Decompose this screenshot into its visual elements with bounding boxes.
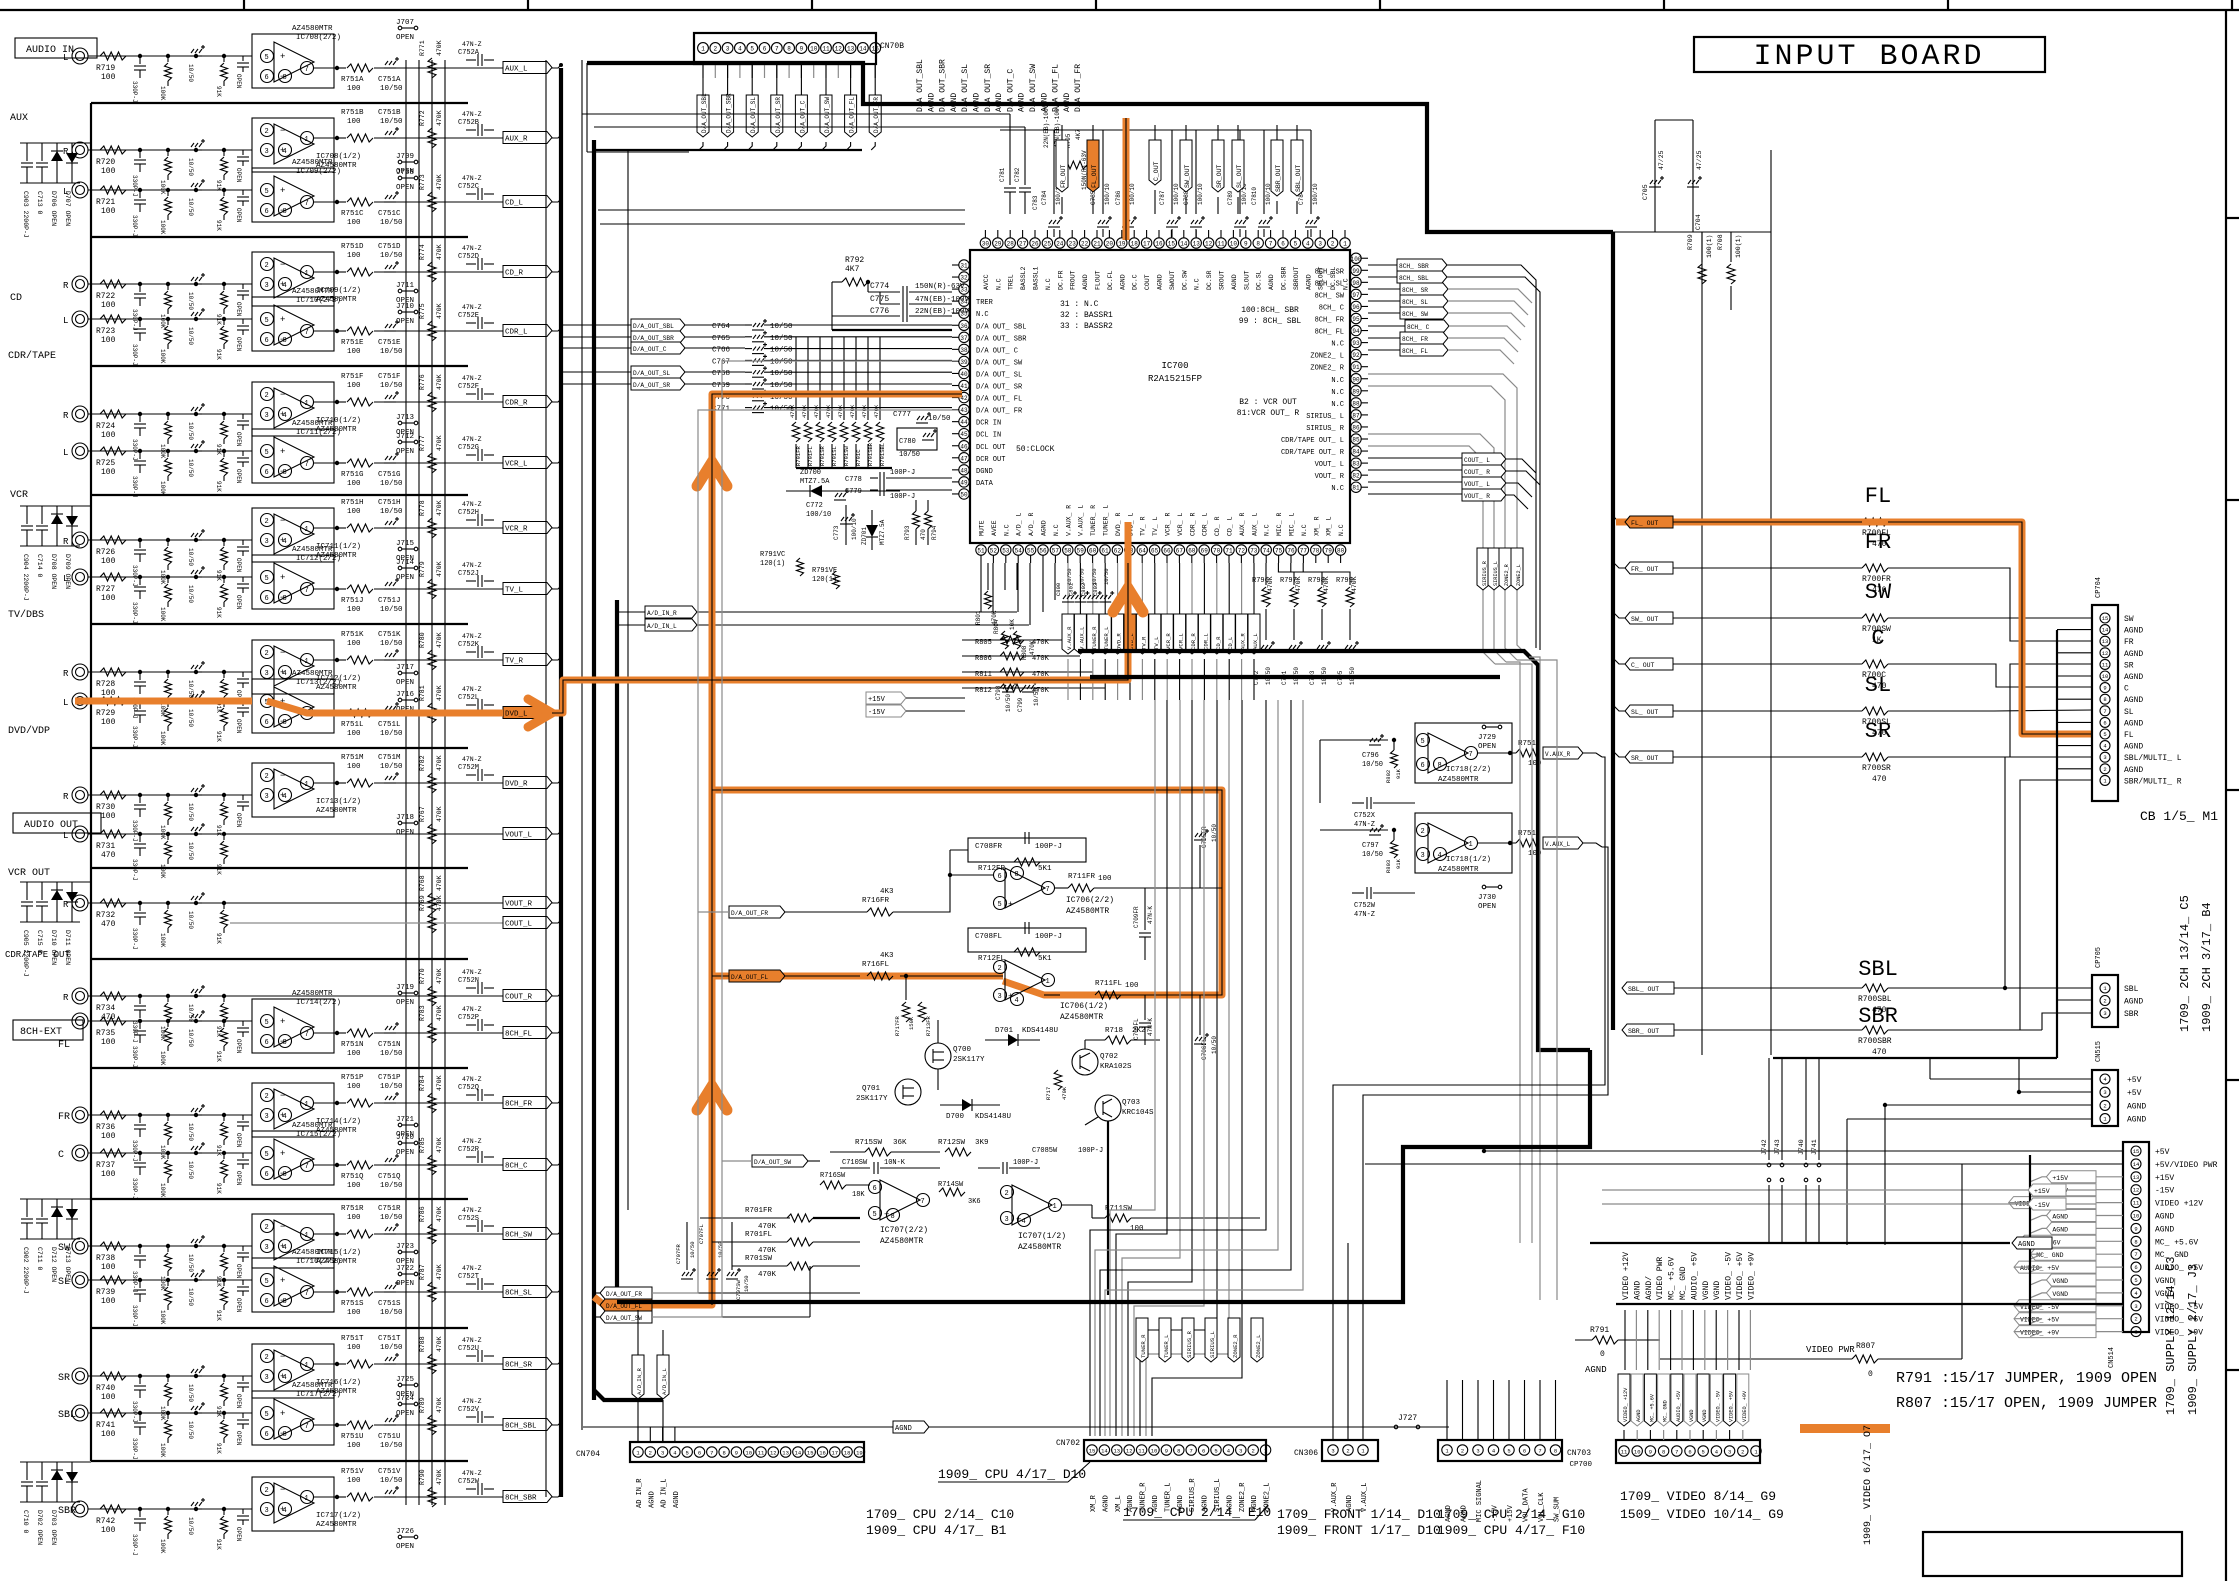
svg-text:100: 100 xyxy=(101,468,116,477)
svg-text:R714SW: R714SW xyxy=(938,1181,964,1189)
wire feedback CD__L xyxy=(334,201,346,203)
svg-text:330P-J: 330P-J xyxy=(131,1534,138,1556)
svg-text:AZ4580MTR: AZ4580MTR xyxy=(292,1249,333,1257)
svg-text:R767: R767 xyxy=(419,806,426,822)
svg-text:5: 5 xyxy=(998,901,1002,909)
svg-text:76: 76 xyxy=(1287,548,1295,555)
svg-text:+: + xyxy=(280,1149,285,1159)
svg-text:D708 OPEN: D708 OPEN xyxy=(50,554,57,589)
svg-text:1709_ CPU 2/14_ C10: 1709_ CPU 2/14_ C10 xyxy=(866,1507,1014,1522)
svg-text:C752X: C752X xyxy=(1354,812,1376,820)
svg-text:47N-Z: 47N-Z xyxy=(462,375,482,382)
svg-text:AGND: AGND xyxy=(895,1425,912,1433)
svg-text:100: 100 xyxy=(101,718,116,727)
svg-text:10/50: 10/50 xyxy=(187,1517,194,1535)
input jack CDR__L xyxy=(72,311,88,327)
svg-text:R723: R723 xyxy=(96,327,115,336)
net label VOUT_R right xyxy=(1462,489,1506,501)
svg-text:100P-J: 100P-J xyxy=(1078,1147,1103,1155)
svg-text:74: 74 xyxy=(1263,548,1271,555)
capacitor C752J 47N-Z xyxy=(466,580,476,582)
svg-text:SR: SR xyxy=(2124,661,2134,670)
svg-text:MIC_ R: MIC_ R xyxy=(1276,512,1283,536)
svg-text:100: 100 xyxy=(347,480,361,488)
svg-text:R783: R783 xyxy=(419,1005,426,1021)
svg-text:IC707(2/2): IC707(2/2) xyxy=(880,1226,928,1235)
svg-text:10/50: 10/50 xyxy=(187,1029,194,1047)
svg-text:-15V: -15V xyxy=(868,709,886,717)
svg-text:C704: C704 xyxy=(1695,214,1702,230)
svg-text:R701FR: R701FR xyxy=(745,1207,773,1215)
svg-text:470K: 470K xyxy=(436,1137,443,1153)
svg-text:R793: R793 xyxy=(904,525,911,540)
svg-text:7: 7 xyxy=(1046,886,1050,894)
svg-text:10/50: 10/50 xyxy=(187,292,194,310)
resistor 91K VCR__L xyxy=(222,449,226,453)
svg-text:C711 0: C711 0 xyxy=(36,1247,43,1271)
svg-text:100/10: 100/10 xyxy=(851,518,858,540)
svg-text:OPEN: OPEN xyxy=(396,297,414,305)
svg-text:VGND: VGND xyxy=(1702,1281,1711,1300)
svg-text:3: 3 xyxy=(1728,1449,1731,1456)
vertical bus B x582 xyxy=(581,60,583,1430)
resistor R700SBR 470 xyxy=(1862,1026,1888,1034)
diode D701 KDS4148U xyxy=(985,1039,1040,1041)
svg-text:R791: R791 xyxy=(1590,1326,1609,1335)
net label VOUT__R xyxy=(503,897,552,909)
svg-text:47N-Z: 47N-Z xyxy=(462,111,482,118)
svg-text:4: 4 xyxy=(1022,1218,1026,1226)
svg-text:DCR OUT: DCR OUT xyxy=(976,456,1005,464)
vertical bus A x561 xyxy=(559,68,563,1497)
wire input row CDR__R xyxy=(88,413,252,415)
capacitor C776 22N(EB)-100V xyxy=(831,282,833,316)
svg-text:91K: 91K xyxy=(215,570,222,581)
svg-text:10: 10 xyxy=(2102,673,2109,680)
jumper J712 OPEN xyxy=(398,440,402,444)
svg-text:J717: J717 xyxy=(396,664,414,672)
svg-text:2: 2 xyxy=(265,128,269,136)
svg-text:R711FR: R711FR xyxy=(1068,873,1096,881)
svg-text:22N(EB)-100V: 22N(EB)-100V xyxy=(915,308,970,316)
svg-text:10/50: 10/50 xyxy=(1362,761,1383,769)
svg-text:N.C: N.C xyxy=(1003,524,1010,536)
svg-text:29: 29 xyxy=(994,241,1002,248)
svg-text:C752J: C752J xyxy=(458,570,479,578)
svg-text:31: 31 xyxy=(960,263,968,270)
svg-text:91K: 91K xyxy=(215,1145,222,1156)
resistor R740 xyxy=(100,1372,126,1380)
svg-text:R791FR: R791FR xyxy=(795,445,802,466)
svg-text:91K: 91K xyxy=(1395,768,1402,779)
svg-text:13: 13 xyxy=(1113,1448,1120,1455)
svg-text:10/50: 10/50 xyxy=(380,1214,403,1222)
capacitor OPEN 8CH__SR xyxy=(242,1376,244,1381)
svg-text:R700SBR: R700SBR xyxy=(1858,1037,1892,1046)
svg-text:10/50: 10/50 xyxy=(187,1123,194,1141)
svg-text:10/50: 10/50 xyxy=(187,422,194,440)
capacitor C752H 47N-Z xyxy=(466,519,476,521)
op-amp IC707(1/2) xyxy=(1012,1185,1052,1225)
net label VOUT_L right xyxy=(1462,477,1506,489)
op-amp IC717(2/2) xyxy=(252,1391,334,1445)
svg-text:N.C: N.C xyxy=(1331,377,1344,385)
thick supply elbow right 2 xyxy=(1090,675,1500,679)
svg-text:OPEN: OPEN xyxy=(235,719,242,734)
svg-text:AGND: AGND xyxy=(1305,274,1312,290)
svg-text:SIRIUS_L: SIRIUS_L xyxy=(1209,1331,1216,1358)
svg-text:45: 45 xyxy=(960,431,968,438)
svg-text:12: 12 xyxy=(770,1450,777,1457)
svg-text:10/50: 10/50 xyxy=(187,158,194,176)
svg-text:AUDIO_ +5V: AUDIO_ +5V xyxy=(1676,1390,1682,1422)
svg-text:D710 OPEN: D710 OPEN xyxy=(50,930,57,965)
svg-text:C752A: C752A xyxy=(458,49,480,57)
svg-text:AZ4580MTR: AZ4580MTR xyxy=(292,25,333,33)
svg-text:8CH_SBL: 8CH_SBL xyxy=(505,1423,537,1431)
net label A/D_IN_R xyxy=(645,606,697,618)
wire VCR__R to bus xyxy=(552,525,561,528)
svg-text:OPEN: OPEN xyxy=(235,1264,242,1279)
svg-text:92: 92 xyxy=(1352,352,1360,359)
svg-text:91K: 91K xyxy=(215,933,222,944)
input jack COUT__R xyxy=(72,988,88,1004)
svg-text:8CH_ C: 8CH_ C xyxy=(1407,324,1430,331)
svg-text:VCR OUT: VCR OUT xyxy=(8,868,50,879)
svg-text:C796: C796 xyxy=(1362,752,1379,760)
svg-text:47N-Z: 47N-Z xyxy=(462,1470,482,1477)
net label 8CH_FL right xyxy=(1400,344,1448,356)
svg-text:120(1): 120(1) xyxy=(760,560,785,568)
net label 8CH_SR right xyxy=(1400,283,1448,295)
svg-text:100(1): 100(1) xyxy=(1706,235,1713,258)
net label SR_OUT xyxy=(1625,751,1673,763)
svg-text:5: 5 xyxy=(265,317,269,325)
svg-text:5: 5 xyxy=(265,1019,269,1027)
svg-text:TV_ L: TV_ L xyxy=(1152,516,1159,536)
capacitor input filter COUT__R xyxy=(138,994,142,998)
svg-text:AUX_ L: AUX_ L xyxy=(1251,512,1258,536)
capacitor OPEN 8CH__SW xyxy=(242,1246,244,1251)
capacitor 10/50 8CH__SBL xyxy=(194,1411,198,1415)
wire SL to CP704 xyxy=(1994,710,2092,711)
svg-text:C752Q: C752Q xyxy=(458,1084,479,1092)
svg-text:C709FR: C709FR xyxy=(1133,906,1140,928)
svg-text:330P-J: 330P-J xyxy=(131,215,138,237)
svg-text:D/A_OUT_SBL: D/A_OUT_SBL xyxy=(633,323,674,330)
svg-text:470K: 470K xyxy=(436,806,443,822)
svg-text:8CH_ C: 8CH_ C xyxy=(1319,304,1344,312)
svg-text:1509_ VIDEO 10/14_ G9: 1509_ VIDEO 10/14_ G9 xyxy=(1620,1507,1784,1522)
wire feedback TV__L xyxy=(334,588,346,590)
svg-text:AGND: AGND xyxy=(673,1491,681,1508)
svg-text:OPEN: OPEN xyxy=(396,1280,414,1288)
svg-text:ZD700: ZD700 xyxy=(800,469,821,477)
net label AUX__R xyxy=(503,132,552,144)
svg-text:C765: C765 xyxy=(712,335,731,343)
highlight DVD/VDP input row orange xyxy=(75,698,252,705)
svg-text:7: 7 xyxy=(2103,708,2106,715)
svg-text:OPEN: OPEN xyxy=(235,1133,242,1148)
svg-text:D/A_OUT_SBR: D/A_OUT_SBR xyxy=(633,335,674,342)
wire D/A OUT FL pin42 net xyxy=(712,394,962,1305)
highlight branch to D/A_OUT_FL label and R716FL xyxy=(712,973,1003,980)
svg-text:470K: 470K xyxy=(436,1206,443,1222)
svg-text:2: 2 xyxy=(265,392,269,400)
resistor R730 xyxy=(100,791,126,799)
connector CN702 xyxy=(1084,1440,1266,1461)
capacitor C708FL 100P-J + resistor R712FL 5K1 xyxy=(968,928,1086,952)
svg-text:12: 12 xyxy=(2133,1187,2140,1194)
svg-text:R740: R740 xyxy=(96,1384,115,1393)
svg-text:470K: 470K xyxy=(825,404,832,418)
svg-text:9: 9 xyxy=(1649,1449,1652,1456)
capacitor input filter CD__R xyxy=(138,282,142,286)
svg-text:CN515: CN515 xyxy=(2095,1041,2103,1062)
svg-text:VCR_L: VCR_L xyxy=(505,461,528,469)
svg-text:2: 2 xyxy=(649,1450,652,1457)
svg-text:36K: 36K xyxy=(893,1139,907,1147)
svg-text:4: 4 xyxy=(283,282,287,290)
wire input row 8CH__SW xyxy=(88,1245,252,1247)
svg-text:SR: SR xyxy=(58,1373,70,1384)
input jack 8CH__FL xyxy=(72,1013,88,1029)
capacitor 10/50 COUT__R xyxy=(194,994,198,998)
svg-text:36: 36 xyxy=(960,323,968,330)
svg-text:C715 0: C715 0 xyxy=(36,930,43,954)
svg-text:OPEN: OPEN xyxy=(396,1410,414,1418)
resistor R716FR 4K3 xyxy=(867,908,893,916)
svg-text:100K: 100K xyxy=(159,1310,166,1325)
AGND bus line bottom xyxy=(583,1426,1449,1428)
svg-text:7: 7 xyxy=(305,329,309,337)
wires CN515 left xyxy=(1930,1078,2092,1080)
svg-text:C752M: C752M xyxy=(458,764,479,772)
svg-text:D/A_OUT_C: D/A_OUT_C xyxy=(799,100,806,133)
svg-text:19: 19 xyxy=(856,1450,863,1457)
svg-text:R732: R732 xyxy=(96,911,115,920)
svg-text:470K: 470K xyxy=(1032,687,1050,695)
svg-text:27: 27 xyxy=(1019,241,1027,248)
svg-text:R725: R725 xyxy=(96,459,115,468)
net label SR_OUT xyxy=(1212,140,1224,192)
svg-text:R751R: R751R xyxy=(341,1205,364,1213)
svg-text:6: 6 xyxy=(1202,1448,1205,1455)
resistor 100K 8CH__FL xyxy=(166,1019,170,1023)
svg-text:VGND: VGND xyxy=(2052,1278,2068,1285)
svg-text:8: 8 xyxy=(283,74,287,82)
svg-text:D/A OUT_ C: D/A OUT_ C xyxy=(976,347,1018,355)
svg-text:C766: C766 xyxy=(712,347,731,355)
svg-text:7: 7 xyxy=(305,200,309,208)
capacitor 10/50 8CH__FL xyxy=(194,1019,198,1023)
svg-text:C751D: C751D xyxy=(378,243,401,251)
svg-text:R751G: R751G xyxy=(341,471,364,479)
jumper J715 OPEN xyxy=(398,547,402,551)
svg-text:8CH_ FR: 8CH_ FR xyxy=(1315,317,1345,325)
thick bus above CP700 xyxy=(1616,1303,2123,1305)
svg-text:8CH_FL: 8CH_FL xyxy=(505,1031,533,1039)
svg-text:C7810: C7810 xyxy=(1251,187,1258,205)
svg-text:330P-J: 330P-J xyxy=(131,1046,138,1068)
net labels D/A OUT left of IC xyxy=(631,319,685,331)
svg-text:51: 51 xyxy=(977,548,985,555)
capacitor C796 10/50 xyxy=(1369,744,1381,746)
wire VOUT__R to bus xyxy=(552,900,561,903)
resistor R785 470K xyxy=(428,1155,436,1175)
capacitor OPEN 8CH__FL xyxy=(242,1021,244,1026)
svg-text:Q702: Q702 xyxy=(1100,1053,1118,1061)
net label 8CH_SBR right xyxy=(1397,259,1447,271)
svg-text:Q703: Q703 xyxy=(1122,1099,1141,1107)
svg-text:55: 55 xyxy=(1027,548,1035,555)
transistor Q701 2SK117Y xyxy=(895,1079,921,1105)
svg-text:−: − xyxy=(280,771,285,781)
svg-text:DCR IN: DCR IN xyxy=(976,420,1001,428)
svg-text:100K: 100K xyxy=(159,1539,166,1554)
capacitor OPEN DVD__R xyxy=(242,795,244,800)
svg-text:8CH_ SBL: 8CH_ SBL xyxy=(1399,275,1429,282)
resistor R751C 100 xyxy=(347,198,373,206)
svg-text:C707FR: C707FR xyxy=(675,1243,682,1264)
svg-text:VOUT_ R: VOUT_ R xyxy=(1315,473,1345,481)
svg-text:3: 3 xyxy=(1318,241,1322,248)
svg-text:AGND: AGND xyxy=(2124,719,2143,728)
svg-text:R716FL: R716FL xyxy=(862,961,890,969)
net label SBL_OUT xyxy=(1291,140,1303,196)
svg-text:2: 2 xyxy=(1331,241,1335,248)
svg-text:0: 0 xyxy=(1868,1370,1873,1379)
svg-text:FROUT: FROUT xyxy=(1070,270,1077,290)
svg-text:AZ4580MTR: AZ4580MTR xyxy=(292,420,333,428)
svg-text:100: 100 xyxy=(101,1263,116,1272)
svg-text:R751F: R751F xyxy=(341,373,364,381)
capacitor input filter 8CH__FL xyxy=(138,1019,142,1023)
svg-text:D702 OPEN: D702 OPEN xyxy=(36,1510,43,1545)
resistor 91K TV__L xyxy=(222,575,226,579)
svg-text:OPEN: OPEN xyxy=(235,1298,242,1313)
svg-text:4: 4 xyxy=(283,538,287,546)
svg-text:10/50: 10/50 xyxy=(187,1254,194,1272)
svg-text:CD_L: CD_L xyxy=(1227,637,1234,650)
wire SW output xyxy=(1673,617,1862,619)
svg-text:330P-J: 330P-J xyxy=(131,1178,138,1200)
svg-text:10/50: 10/50 xyxy=(689,1241,696,1258)
resistor R780 470K xyxy=(428,650,436,670)
svg-text:330P-J: 330P-J xyxy=(131,1401,138,1423)
svg-text:R751V: R751V xyxy=(341,1468,364,1476)
svg-text:8: 8 xyxy=(283,1431,287,1439)
wire input row 8CH__SL xyxy=(88,1279,252,1281)
svg-text:C786: C786 xyxy=(1115,190,1122,205)
capacitor C705FR 10/50 xyxy=(1199,845,1201,888)
net label DVD__R xyxy=(503,777,552,789)
capacitor OPEN 8CH__SBL xyxy=(242,1413,244,1418)
capacitor C751N 10/50 xyxy=(384,1032,396,1034)
jumper J717 OPEN xyxy=(398,671,402,675)
capacitor OPEN 8CH__SL xyxy=(242,1280,244,1285)
capacitor OPEN TV__L xyxy=(242,577,244,582)
svg-text:XM_ R: XM_ R xyxy=(1313,516,1320,536)
jumper J727 xyxy=(1394,1425,1398,1429)
svg-text:7: 7 xyxy=(1469,751,1473,759)
bypass capacitor bank above IC700 xyxy=(1000,129,1311,131)
resistor R736 xyxy=(100,1111,126,1119)
bus x1702 xyxy=(1701,232,1703,1055)
svg-text:SL_ OUT: SL_ OUT xyxy=(1631,709,1658,716)
svg-text:DCL OUT: DCL OUT xyxy=(976,444,1005,452)
highlight arrow into DVD_L label xyxy=(528,699,552,727)
svg-text:R791SBR: R791SBR xyxy=(867,442,874,466)
svg-text:100/10: 100/10 xyxy=(1197,183,1204,205)
jumper J725 OPEN xyxy=(398,1383,402,1387)
op-amp IC706(2/2) xyxy=(1005,868,1045,908)
svg-text:4K7: 4K7 xyxy=(845,265,860,274)
svg-text:100/10: 100/10 xyxy=(1129,183,1136,205)
svg-text:OPEN: OPEN xyxy=(396,1131,414,1139)
svg-text:7: 7 xyxy=(305,1163,309,1171)
svg-text:1: 1 xyxy=(305,1495,309,1503)
svg-text:CDR/TAPE OUT_ L: CDR/TAPE OUT_ L xyxy=(1281,437,1344,445)
wire SL output xyxy=(1673,710,1862,712)
svg-text:18: 18 xyxy=(844,1450,851,1457)
wire SIRIUS ZONE2 descent B xyxy=(1517,660,1557,1300)
wire input row TV__L xyxy=(88,576,252,578)
svg-text:9: 9 xyxy=(2134,1225,2137,1232)
svg-text:OPEN: OPEN xyxy=(235,1039,242,1054)
svg-text:DVD_L: DVD_L xyxy=(505,711,528,719)
svg-text:91K: 91K xyxy=(215,220,222,231)
svg-text:100P-J: 100P-J xyxy=(1035,843,1062,851)
svg-text:DVD_R: DVD_R xyxy=(1116,633,1123,650)
capacitor input filter CDR__L xyxy=(138,317,142,321)
resistor 100K DVD__R xyxy=(166,793,170,797)
svg-text:10/50: 10/50 xyxy=(770,370,793,378)
svg-text:91K: 91K xyxy=(215,1443,222,1454)
highlight IC706 loop xyxy=(712,790,1222,995)
svg-text:100: 100 xyxy=(101,689,116,698)
svg-text:13: 13 xyxy=(1193,241,1201,248)
svg-text:VIDEO_ +12V: VIDEO_ +12V xyxy=(1623,1387,1629,1422)
svg-text:J726: J726 xyxy=(396,1528,415,1536)
svg-text:OPEN: OPEN xyxy=(396,429,414,437)
svg-text:8: 8 xyxy=(283,719,287,727)
net label CD__L xyxy=(503,196,552,208)
vertical bus D x617 xyxy=(615,600,619,1302)
capacitor 10/50 8CH__SBR xyxy=(194,1507,198,1511)
svg-text:COUT_R: COUT_R xyxy=(505,994,533,1002)
svg-text:R711SW: R711SW xyxy=(1105,1205,1133,1213)
svg-text:470K: 470K xyxy=(436,875,443,891)
svg-text:C799: C799 xyxy=(1017,697,1024,712)
highlight D/A OUT FL net from pin 42 xyxy=(680,394,962,1305)
svg-text:AGND: AGND xyxy=(1585,1365,1607,1375)
svg-text:IC717(2/2): IC717(2/2) xyxy=(296,1391,341,1399)
resistor R751N 100 xyxy=(347,1029,373,1037)
wire input row 8CH__FR xyxy=(88,1114,252,1116)
resistor R700C 470 xyxy=(1862,660,1888,668)
svg-text:N.C: N.C xyxy=(1331,389,1344,397)
svg-text:470K: 470K xyxy=(837,404,844,418)
svg-text:AGND: AGND xyxy=(1041,520,1048,536)
svg-text:470K: 470K xyxy=(436,110,443,126)
svg-text:8: 8 xyxy=(283,595,287,603)
svg-text:23: 23 xyxy=(1069,241,1077,248)
svg-text:C789: C789 xyxy=(1227,190,1234,205)
svg-text:J742: J742 xyxy=(1761,1139,1768,1155)
svg-text:IC716(2/2): IC716(2/2) xyxy=(296,1258,341,1266)
svg-text:72: 72 xyxy=(1238,548,1246,555)
